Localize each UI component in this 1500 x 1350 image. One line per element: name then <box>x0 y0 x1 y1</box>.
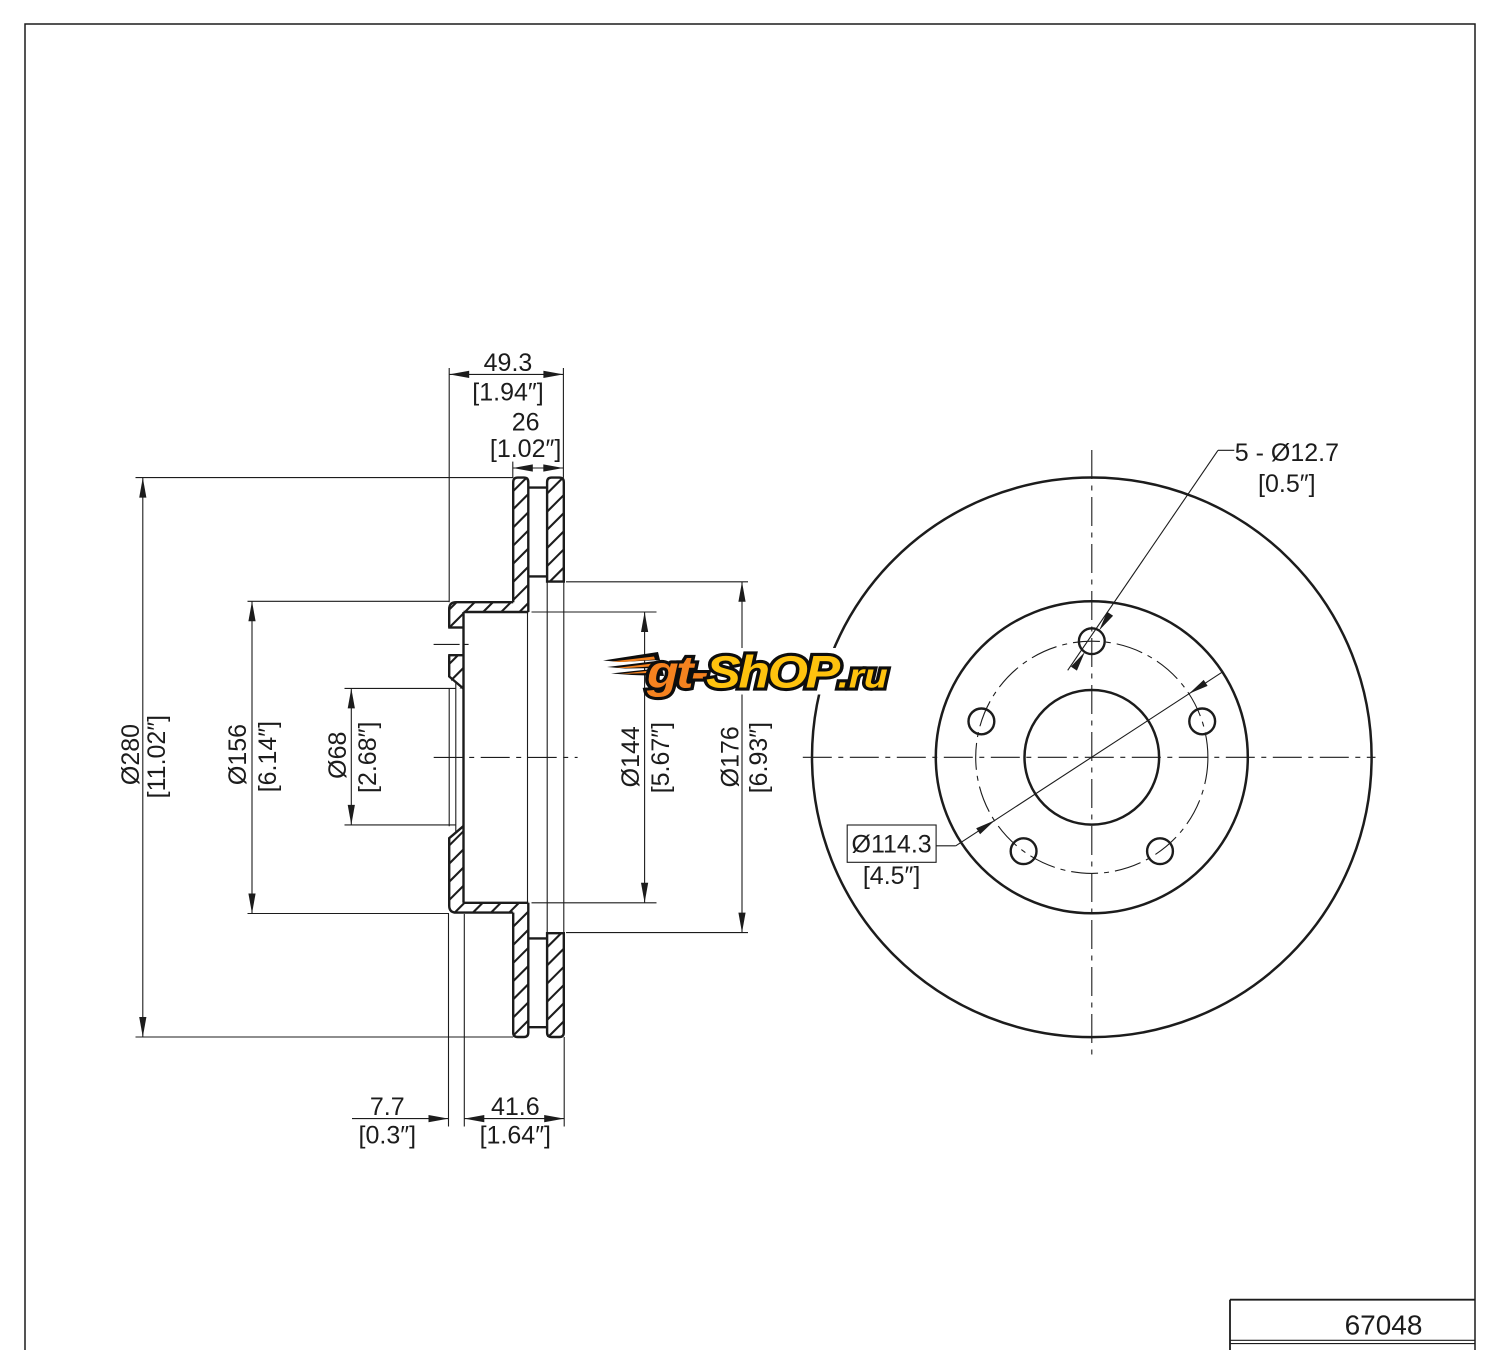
hat left face below hole + bore chamfer top <box>449 655 463 688</box>
dimension O114.3 [4.5"] with leader and box <box>847 672 1222 890</box>
extension line O144 bottom <box>532 902 657 904</box>
svg-text:49.3: 49.3 <box>484 349 533 377</box>
inboard plate bottom outline <box>547 933 564 1037</box>
section hatching (45 deg) <box>0 430 1173 1100</box>
svg-text:[5.67″]: [5.67″] <box>647 722 675 793</box>
extension line O144 top <box>532 611 657 613</box>
extension line 7.7 left <box>448 913 450 1126</box>
extension line O176 bottom <box>566 932 748 934</box>
extension line O156 top <box>248 600 450 602</box>
dimension 7.7 [0.3"] <box>352 1118 449 1120</box>
bolt hole 4 O12.7 <box>1011 838 1037 864</box>
dimension 26 [1.02"] <box>513 467 564 469</box>
extension line 49.3/26 right <box>562 368 564 478</box>
svg-text:[1.02″]: [1.02″] <box>490 435 561 463</box>
svg-text:[6.14″]: [6.14″] <box>254 721 282 792</box>
dimension O280 [11.02"] <box>142 478 144 1037</box>
svg-text:[4.5″]: [4.5″] <box>863 862 921 890</box>
svg-text:67048: 67048 <box>1345 1310 1423 1341</box>
bolt hole 1 O12.7 <box>1079 628 1105 654</box>
bolt hole centerline tick <box>434 643 471 645</box>
extension line O156 bottom <box>248 913 450 915</box>
hat top shoulder <box>449 602 513 627</box>
hat face edge through bore <box>448 689 450 827</box>
bolt hole 3 O12.7 <box>1147 838 1173 864</box>
svg-text:[6.93″]: [6.93″] <box>745 722 773 793</box>
extension line 49.3 left <box>448 368 450 602</box>
extension line 26 left <box>512 462 514 478</box>
extension line O68 top <box>345 687 456 689</box>
svg-text:7.7: 7.7 <box>370 1093 405 1121</box>
svg-text:[2.68″]: [2.68″] <box>354 722 382 793</box>
dimension 49.3 [1.94"] <box>449 373 563 375</box>
extension line 7.7/41.6 middle <box>463 914 465 1127</box>
svg-text:Ø176: Ø176 <box>716 726 744 787</box>
svg-text:[0.3″]: [0.3″] <box>359 1121 417 1149</box>
dimension O156 [6.14"] <box>251 601 253 913</box>
hat bottom shoulder lower edge <box>464 902 529 904</box>
svg-text:41.6: 41.6 <box>491 1093 540 1121</box>
hat flange bolt hole edges <box>448 626 463 628</box>
svg-text:Ø68: Ø68 <box>324 732 352 779</box>
dimension 41.6 [1.64"] <box>464 1118 564 1120</box>
bore chamfer bottom + hat left face lower <box>449 826 513 912</box>
vent slot floor top <box>528 575 547 577</box>
svg-text:Ø156: Ø156 <box>224 724 252 785</box>
svg-text:[0.5″]: [0.5″] <box>1258 470 1316 498</box>
front view vertical centerline <box>1091 450 1093 1061</box>
extension line rotor OD bottom (O280) <box>136 1036 514 1038</box>
hat inner face <box>462 612 464 903</box>
outer circle O280 <box>812 478 1372 1038</box>
svg-text:Ø144: Ø144 <box>617 726 645 787</box>
hub bore chamfer edge <box>455 682 457 834</box>
svg-text:Ø280: Ø280 <box>117 724 145 785</box>
outboard plate top outline <box>513 478 528 612</box>
inboard plate top outline <box>547 478 564 582</box>
svg-text:5 - Ø12.7: 5 - Ø12.7 <box>1235 439 1339 467</box>
vent slot bottom closure <box>528 1026 547 1028</box>
leader 5 - O12.7 <box>1068 439 1339 671</box>
hidden edge inboard plate outer face <box>563 582 565 934</box>
bolt circle O114.3 (dash-dot) <box>976 641 1208 873</box>
vent slot top closure <box>528 486 547 488</box>
outboard plate bottom outline <box>513 903 528 1037</box>
dimension O68 [2.68"] <box>350 688 352 825</box>
gt-shop.ru watermark logo <box>603 648 897 698</box>
front view horizontal centerline <box>803 756 1376 758</box>
svg-text:[1.94″]: [1.94″] <box>472 378 543 406</box>
extension line O176 top <box>566 581 748 583</box>
svg-text:Ø114.3: Ø114.3 <box>852 830 932 858</box>
hidden edge inboard plate vent face <box>546 582 548 934</box>
svg-text:[1.64″]: [1.64″] <box>480 1121 551 1149</box>
extension line O68 bottom <box>345 824 456 826</box>
extension line rotor OD top (O280) <box>136 477 514 479</box>
bolt hole 2 O12.7 <box>1189 709 1215 735</box>
bolt hole 5 O12.7 <box>969 709 995 735</box>
svg-text:[11.02″]: [11.02″] <box>143 715 171 798</box>
hidden edge outboard plate inner face <box>527 612 529 903</box>
dimension O176 [6.93"] <box>741 582 743 933</box>
extension line 41.6 right <box>563 1037 565 1127</box>
dimension O144 [5.67"] <box>644 612 646 903</box>
section centerline (axis) <box>434 756 578 758</box>
title block <box>1230 1300 1475 1350</box>
hub bore circle O68 <box>1025 690 1160 825</box>
svg-text:26: 26 <box>512 408 540 436</box>
vent slot ceiling bottom <box>528 937 547 939</box>
hat circle O156 <box>936 601 1248 913</box>
